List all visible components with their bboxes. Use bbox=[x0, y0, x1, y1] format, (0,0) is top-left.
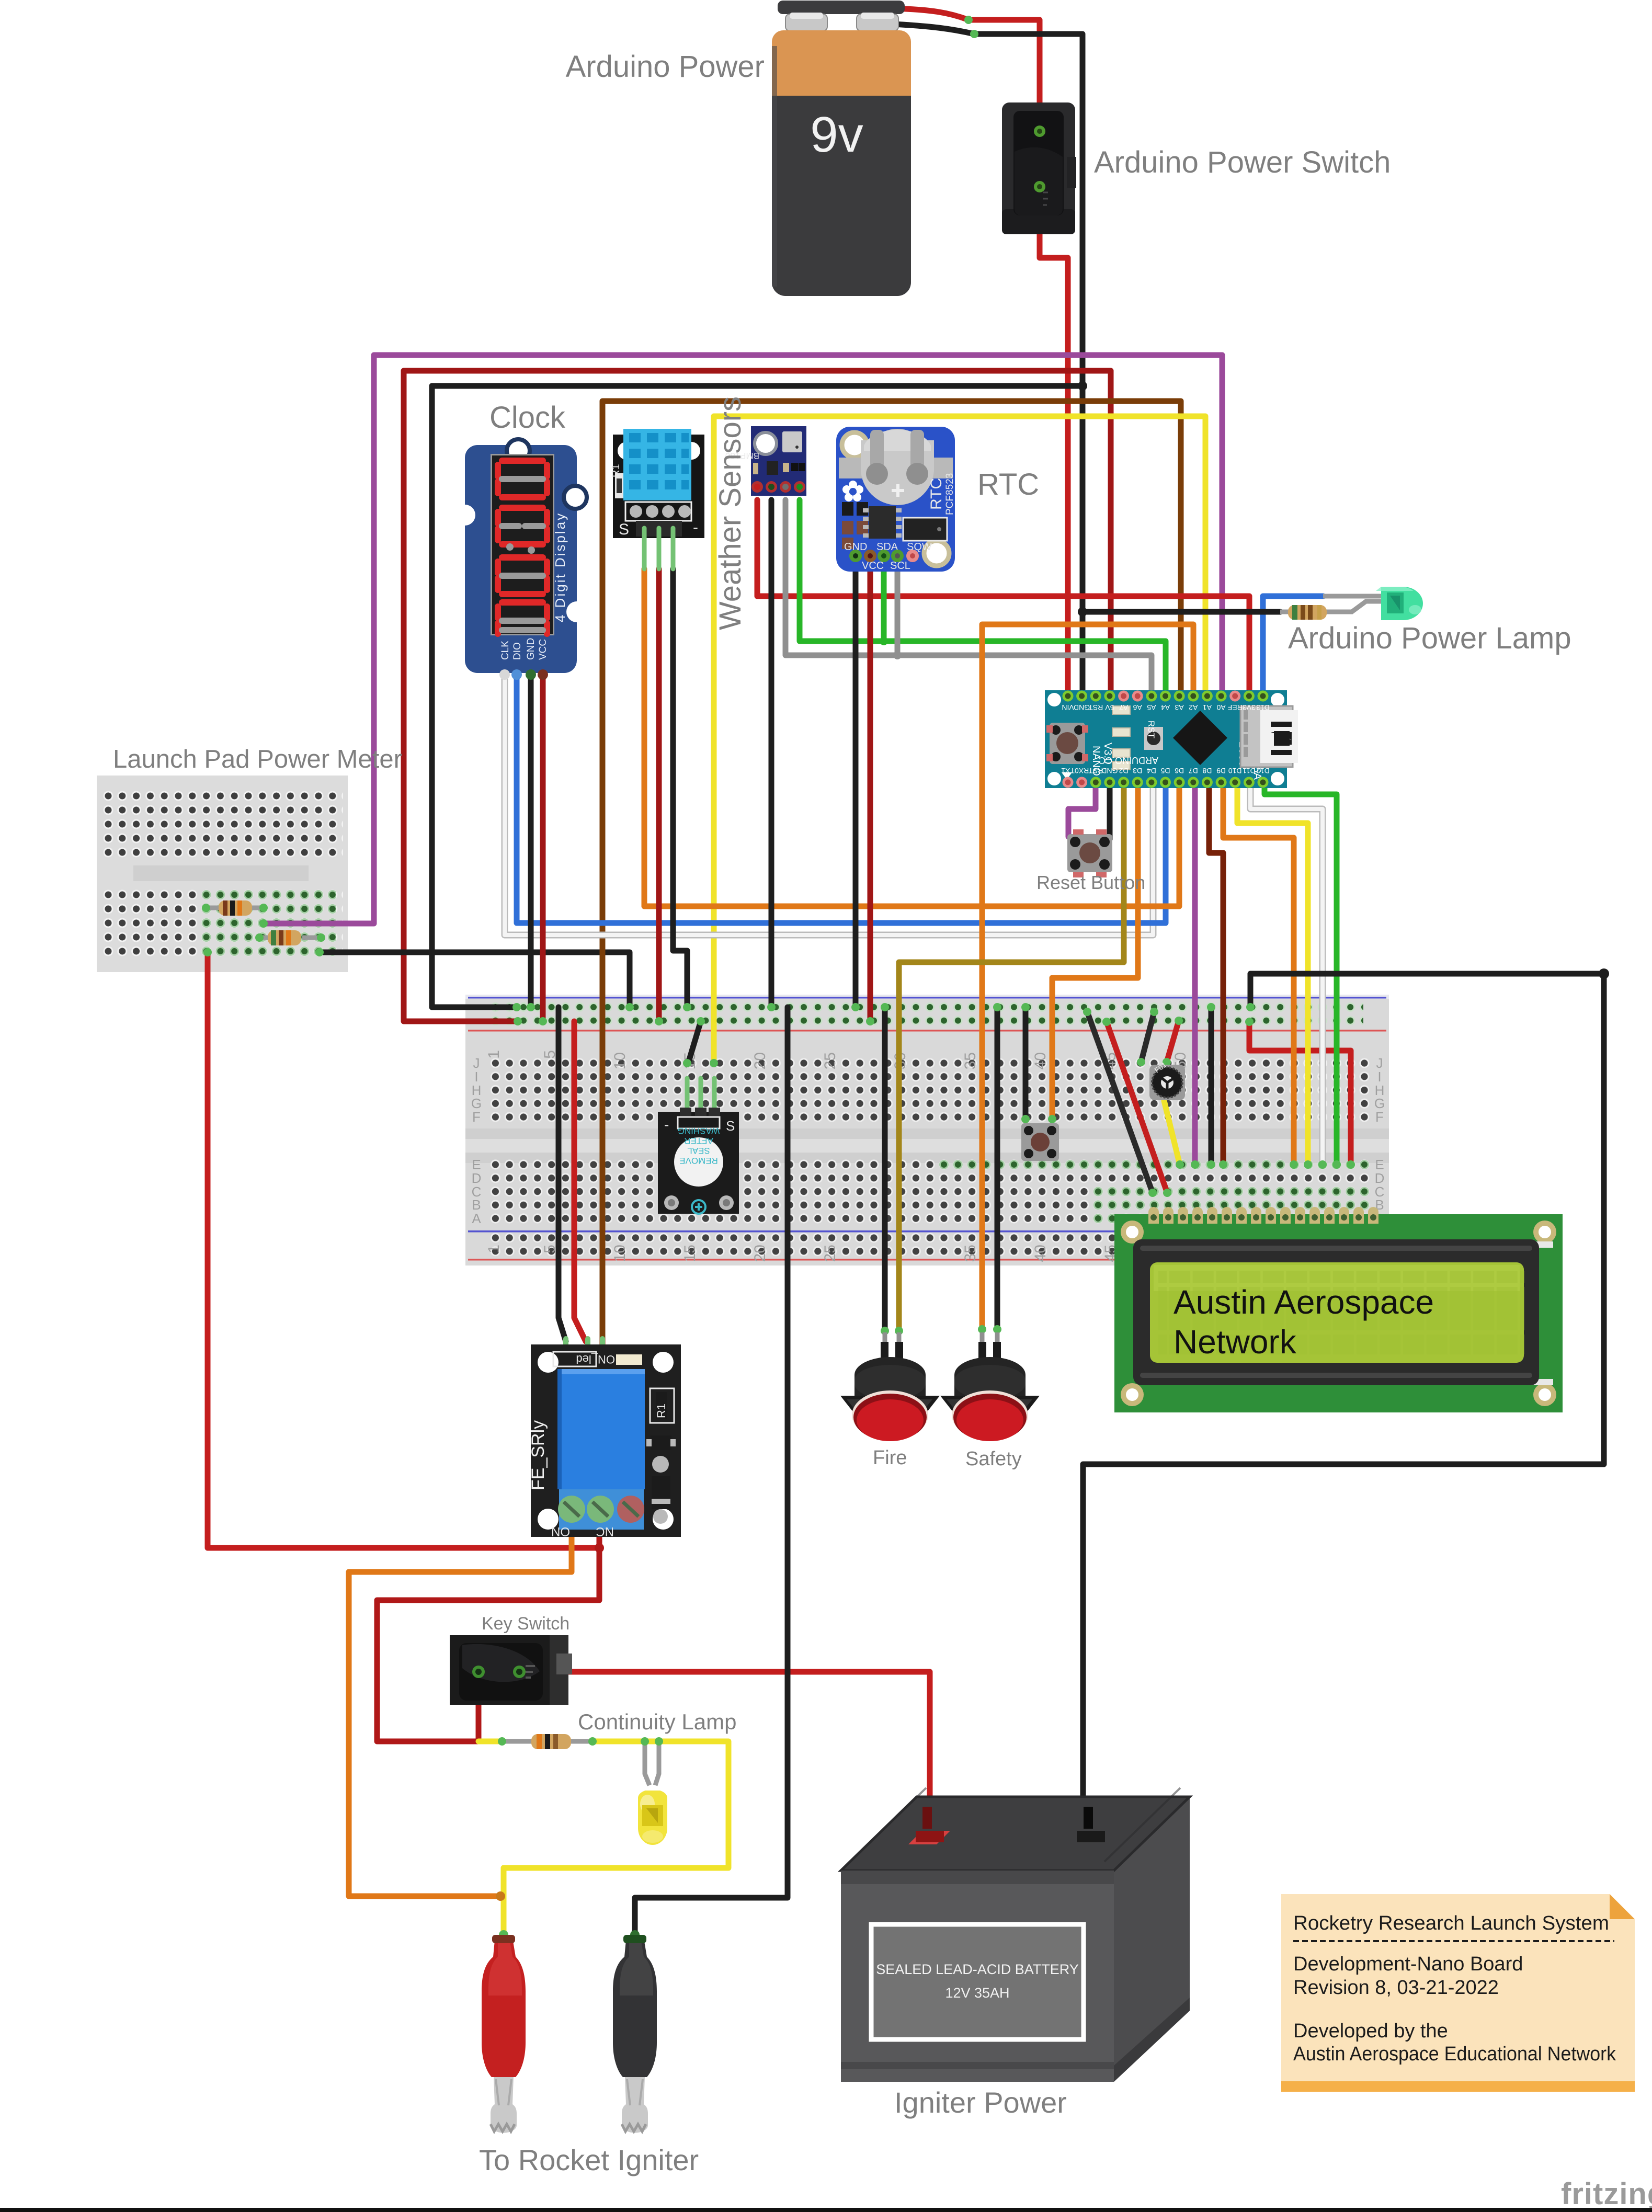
wire battery black to nano GND bbox=[974, 34, 1083, 696]
svg-text:D9: D9 bbox=[1216, 767, 1226, 775]
svg-text:A1: A1 bbox=[1203, 703, 1212, 712]
svg-text:9v: 9v bbox=[810, 107, 863, 163]
wire green RTC SDA bbox=[881, 556, 887, 641]
wire maroon D8 bbox=[1209, 782, 1223, 1165]
wire red meter to relay NC bbox=[208, 952, 599, 1548]
svg-text:20: 20 bbox=[751, 1245, 769, 1262]
wire gray BMP SCL to A5 bbox=[785, 500, 1152, 696]
svg-text:Network: Network bbox=[1174, 1323, 1297, 1361]
svg-text:GND: GND bbox=[1074, 703, 1090, 712]
continuity resistor bbox=[498, 1734, 597, 1749]
wire orange A2 to safety bbox=[982, 624, 1193, 1331]
7-seg digits vertical bbox=[498, 461, 547, 634]
wire yellow A1 to buzzer bbox=[714, 416, 1205, 1063]
wire yellow resistor to red clip bbox=[504, 1741, 728, 1935]
svg-text:VCC: VCC bbox=[538, 639, 549, 660]
small breadboard (Launch Pad Power Meter) bbox=[97, 776, 348, 972]
svg-text:S: S bbox=[619, 521, 629, 538]
svg-text:RX0: RX0 bbox=[1075, 767, 1089, 775]
bottom black bar bbox=[0, 2208, 1652, 2212]
svg-text:TX1: TX1 bbox=[1061, 767, 1075, 775]
wire brown A3 to relay S bbox=[602, 401, 1181, 1344]
buzzer bbox=[658, 1078, 739, 1214]
wire yellow key node to resistor bbox=[478, 1739, 502, 1744]
svg-text:A3: A3 bbox=[1175, 703, 1183, 712]
wire blue clock DIO to D5 bbox=[517, 675, 1166, 923]
wire blue D13 to lamp resistor bbox=[1263, 596, 1323, 696]
nano tactile reset on board bbox=[1050, 723, 1085, 764]
wire black RTC GND bbox=[853, 556, 859, 1007]
wire red short diagonal bbox=[1167, 1021, 1179, 1062]
svg-text:Arduino Power Lamp: Arduino Power Lamp bbox=[1288, 621, 1571, 655]
svg-text:Development-Nano Board: Development-Nano Board bbox=[1293, 1953, 1523, 1975]
Arduino power lamp LED green bbox=[1376, 587, 1423, 620]
svg-text:A4: A4 bbox=[1161, 703, 1170, 712]
fritzing logo bbox=[1561, 2177, 1652, 2211]
svg-text:D13: D13 bbox=[1256, 703, 1270, 712]
svg-text:Igniter Power: Igniter Power bbox=[894, 2086, 1067, 2119]
wire black to lamp resistor bbox=[1083, 609, 1280, 615]
wire red key switch to battery plus bbox=[519, 1672, 930, 1835]
Arduino power lamp resistor bbox=[1280, 596, 1382, 620]
wire battery red to switch bbox=[969, 20, 1040, 131]
svg-text:CLK: CLK bbox=[500, 641, 511, 660]
svg-text:DIO: DIO bbox=[512, 642, 523, 660]
green wire tips bbox=[203, 919, 1355, 1335]
svg-text:REF: REF bbox=[1228, 703, 1243, 712]
svg-text:35: 35 bbox=[962, 1052, 979, 1069]
wire black short diagonal bbox=[1141, 1012, 1154, 1062]
svg-text:R1: R1 bbox=[655, 1404, 668, 1418]
svg-text:RST: RST bbox=[1088, 767, 1103, 775]
wire green BMP SDA to A4 bbox=[800, 500, 1166, 696]
info box bbox=[1281, 1894, 1635, 2092]
svg-text:Reset Button: Reset Button bbox=[1036, 872, 1145, 893]
svg-text:D8: D8 bbox=[1202, 767, 1212, 775]
svg-text:5V: 5V bbox=[1105, 703, 1114, 712]
wire yellow trimpot to E49 bbox=[1164, 1101, 1180, 1165]
wire red rail to relay plus bbox=[574, 1021, 586, 1341]
svg-text:Austin Aerospace: Austin Aerospace bbox=[1174, 1283, 1434, 1321]
svg-text:40: 40 bbox=[1032, 1245, 1049, 1262]
wire black diagonal rail to C48 bbox=[1087, 1012, 1153, 1193]
svg-text:D5: D5 bbox=[1160, 767, 1170, 775]
Arduino power switch bbox=[1002, 102, 1076, 234]
svg-text:Developed by the: Developed by the bbox=[1293, 2020, 1448, 2042]
svg-text:D2: D2 bbox=[1119, 767, 1128, 775]
red alligator clip bbox=[482, 1930, 526, 2133]
Clock module (4 digit display) bbox=[454, 439, 587, 680]
svg-text:A6: A6 bbox=[1133, 703, 1142, 712]
svg-text:Clock: Clock bbox=[489, 401, 566, 435]
DHT11 sensor bbox=[610, 429, 704, 569]
black alligator clip bbox=[613, 1930, 657, 2133]
svg-text:NC: NC bbox=[596, 1524, 614, 1538]
svg-text:D6: D6 bbox=[1175, 767, 1184, 775]
svg-text:1: 1 bbox=[485, 1050, 503, 1059]
svg-text:RTC: RTC bbox=[928, 478, 945, 510]
svg-text:Revision 8, 03-21-2022: Revision 8, 03-21-2022 bbox=[1293, 1977, 1499, 1999]
nano top pins bbox=[1063, 691, 1269, 702]
wire red diagonal rail to C49 bbox=[1107, 1022, 1167, 1193]
wire black rail to E51 bbox=[1209, 1007, 1214, 1165]
relay module FE_SRly bbox=[528, 1339, 681, 1538]
wire gray RTC SCL bbox=[895, 556, 901, 655]
svg-text:35: 35 bbox=[962, 1245, 979, 1262]
9V battery (Arduino Power) bbox=[772, 1, 978, 296]
svg-text:ON: ON bbox=[551, 1524, 570, 1538]
wire black gnd bus left bbox=[432, 386, 1083, 1007]
wire black rail to relay minus bbox=[559, 1007, 566, 1341]
wire orange D9 bbox=[1223, 782, 1294, 1165]
wire black GND to reset button bbox=[1107, 782, 1113, 839]
svg-text:ARDUINO.CC: ARDUINO.CC bbox=[1099, 755, 1158, 766]
LCD display bbox=[1114, 1207, 1563, 1412]
wire orange DHT S to D6 bbox=[644, 569, 1179, 906]
wire black clock GND bbox=[528, 675, 534, 1007]
svg-text:3V3: 3V3 bbox=[1243, 703, 1256, 712]
svg-text:A2: A2 bbox=[1189, 703, 1198, 712]
wire black buzzer diagonal bbox=[688, 1021, 701, 1063]
nano RST button bbox=[1144, 727, 1163, 750]
nano USB bbox=[1240, 706, 1293, 767]
svg-text:GND: GND bbox=[526, 638, 537, 660]
lead-acid battery (Igniter Power) bbox=[841, 1788, 1190, 2082]
svg-text:-: - bbox=[693, 519, 698, 536]
svg-text:Fire: Fire bbox=[873, 1447, 907, 1469]
svg-text:Weather Sensors: Weather Sensors bbox=[713, 396, 747, 630]
wire switch to nano VIN red bbox=[1040, 187, 1068, 696]
svg-text:To Rocket Igniter: To Rocket Igniter bbox=[479, 2143, 699, 2176]
wire black BMP bbox=[769, 500, 774, 1007]
wire dark red 5V to rail bbox=[404, 371, 1111, 1021]
wire darkred relay NC to key switch bbox=[377, 1506, 599, 1741]
wire darkred RTC VCC bbox=[868, 556, 873, 1021]
nano bottom pins bbox=[1063, 777, 1269, 788]
wire olive D2 to fire bbox=[899, 782, 1124, 1332]
Reset button (external) bbox=[1067, 829, 1112, 877]
wire white D11 bbox=[1250, 782, 1323, 1165]
nano texts bbox=[1090, 721, 1263, 780]
svg-text:4 Digit Display: 4 Digit Display bbox=[552, 512, 568, 622]
svg-text:-: - bbox=[664, 1116, 669, 1133]
wire darkred DHT vcc bbox=[656, 569, 662, 1021]
wire red rail to E bbox=[1249, 1022, 1351, 1165]
svg-text:Arduino Power: Arduino Power bbox=[566, 50, 765, 84]
wire red BMP to 3V3 bbox=[757, 500, 1249, 696]
BMP180 sensor bbox=[725, 426, 806, 496]
wire purple D7 to E50 bbox=[1192, 782, 1198, 1165]
wire purple RST to reset button bbox=[1068, 782, 1096, 837]
svg-text:Launch Pad Power Meter: Launch Pad Power Meter bbox=[113, 745, 402, 773]
svg-text:FE_SRly: FE_SRly bbox=[528, 1420, 548, 1490]
svg-text:15: 15 bbox=[681, 1245, 699, 1262]
nano MCU chip bbox=[1173, 711, 1227, 765]
wire yellow D10 bbox=[1237, 782, 1308, 1165]
svg-text:SCL: SCL bbox=[890, 560, 910, 572]
wire black breadboard to black clip bbox=[635, 1007, 788, 1935]
svg-text:Key Switch: Key Switch bbox=[482, 1614, 569, 1634]
svg-text:GND: GND bbox=[1101, 767, 1118, 775]
svg-text:A5: A5 bbox=[1147, 703, 1156, 712]
svg-text:RST: RST bbox=[1088, 703, 1103, 712]
svg-text:A0: A0 bbox=[1216, 703, 1225, 712]
wire purple A0 to meter bbox=[264, 355, 1222, 923]
svg-text:D7: D7 bbox=[1189, 767, 1198, 775]
trim pot bbox=[1149, 1060, 1185, 1100]
svg-text:D11: D11 bbox=[1243, 767, 1256, 775]
svg-text:SEALED LEAD-ACID BATTERY: SEALED LEAD-ACID BATTERY bbox=[876, 1962, 1079, 1977]
svg-text:RST: RST bbox=[1146, 721, 1156, 738]
wire orange relay NO to clip node bbox=[349, 1511, 572, 1896]
svg-text:ON_led: ON_led bbox=[576, 1353, 615, 1366]
svg-text:A7: A7 bbox=[1119, 703, 1128, 712]
svg-text:A: A bbox=[472, 1211, 481, 1226]
Fire button bbox=[840, 1332, 940, 1441]
svg-text:Safety: Safety bbox=[965, 1448, 1022, 1470]
svg-text:Rocketry Research Launch Syste: Rocketry Research Launch System bbox=[1293, 1912, 1609, 1934]
svg-text:Austin Aerospace Educational N: Austin Aerospace Educational Network bbox=[1293, 2043, 1616, 2065]
wire green D12 bbox=[1264, 782, 1337, 1165]
wire orange D3 to pushbutton bbox=[1052, 782, 1138, 1119]
wire black rail to pushbutton bbox=[1023, 1007, 1029, 1119]
svg-text:D10: D10 bbox=[1228, 767, 1242, 775]
wire white clock CLK to D4 bbox=[505, 675, 1153, 935]
svg-text:F: F bbox=[1375, 1109, 1384, 1125]
svg-text:Continuity Lamp: Continuity Lamp bbox=[578, 1709, 737, 1734]
wire darkred clock VCC bbox=[540, 675, 546, 1021]
svg-text:PCF8523: PCF8523 bbox=[944, 473, 955, 515]
svg-text:25: 25 bbox=[822, 1245, 839, 1262]
Safety button bbox=[940, 1332, 1040, 1441]
svg-text:1: 1 bbox=[485, 1245, 503, 1253]
wire black rail to safety bbox=[995, 1007, 1000, 1331]
svg-text:D12: D12 bbox=[1256, 767, 1270, 775]
svg-text:12V 35AH: 12V 35AH bbox=[945, 1985, 1009, 2001]
nano LEDs bbox=[1112, 706, 1130, 770]
pushbutton on breadboard bbox=[1021, 1123, 1059, 1161]
key switch bbox=[450, 1635, 572, 1705]
svg-text:10: 10 bbox=[611, 1245, 629, 1262]
svg-text:20: 20 bbox=[751, 1052, 769, 1069]
svg-text:VIN: VIN bbox=[1062, 703, 1074, 712]
meter resistor 1 bbox=[202, 900, 268, 916]
svg-text:40: 40 bbox=[1032, 1052, 1049, 1069]
wire black rail to fire bbox=[882, 1007, 888, 1332]
Arduino Nano board bbox=[1045, 690, 1298, 788]
nano pin labels bbox=[1062, 703, 1270, 712]
svg-text:10: 10 bbox=[611, 1052, 629, 1069]
main breadboard bbox=[465, 995, 1389, 1265]
continuity lamp LED yellow bbox=[638, 1737, 667, 1845]
svg-text:D3: D3 bbox=[1133, 767, 1142, 775]
svg-text:25: 25 bbox=[822, 1052, 839, 1069]
svg-text:F: F bbox=[472, 1109, 481, 1125]
svg-text:VCC: VCC bbox=[862, 560, 884, 572]
svg-text:RTC: RTC bbox=[977, 468, 1039, 501]
RTC PCF8523 module bbox=[836, 427, 955, 572]
svg-text:fritzing: fritzing bbox=[1561, 2177, 1652, 2211]
svg-text:Arduino Power Switch: Arduino Power Switch bbox=[1094, 145, 1391, 179]
svg-text:S: S bbox=[726, 1118, 735, 1134]
wire black meter branch to rail bbox=[320, 952, 630, 1007]
wire black igniter return loop bbox=[1083, 974, 1604, 1835]
wire black DHT gnd bbox=[673, 569, 687, 1007]
meter resistor 2 bbox=[255, 930, 325, 945]
svg-text:D4: D4 bbox=[1147, 767, 1156, 775]
